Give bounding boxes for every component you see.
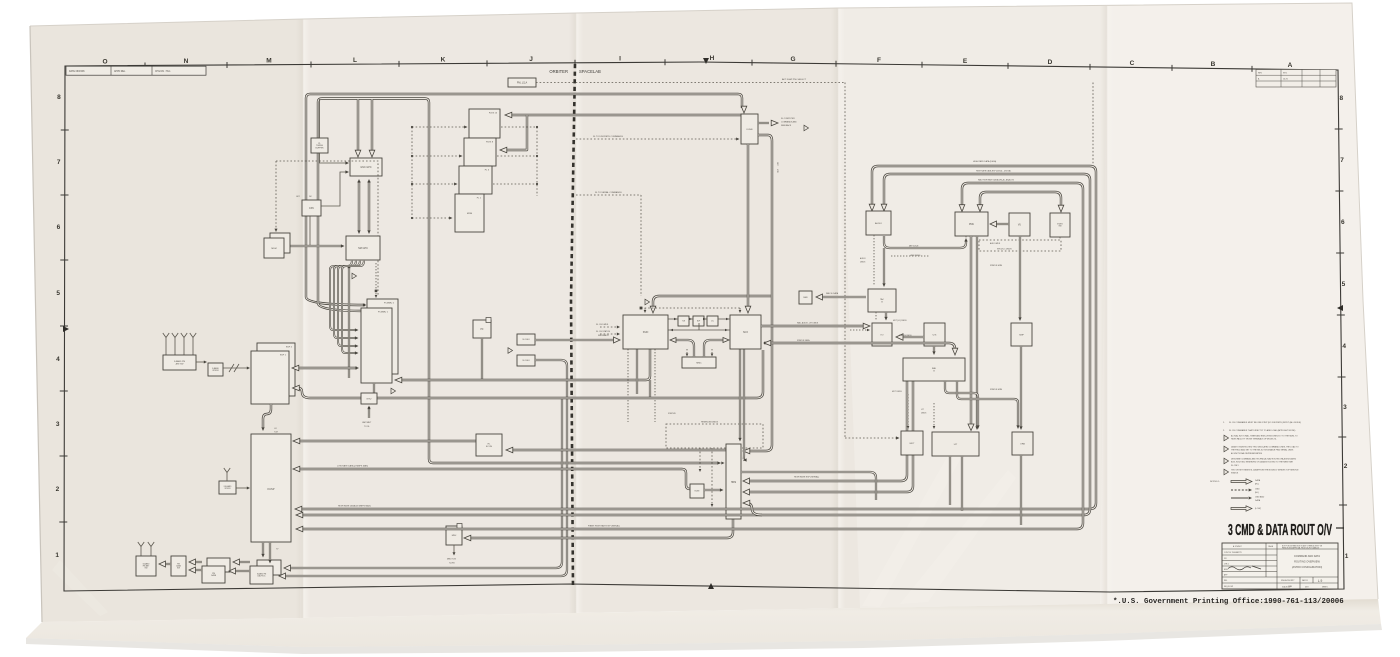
box MDM OF rear <box>270 233 290 253</box>
svg-text:HIGH RATE EXP (SERIAL): HIGH RATE EXP (SERIAL) <box>794 476 820 479</box>
svg-text:HRM/KUSB DMDS: HRM/KUSB DMDS <box>701 422 719 424</box>
svg-text:8: 8 <box>1340 95 1344 102</box>
svg-text:(HL): (HL) <box>1255 492 1259 494</box>
svg-text:AUD DMDS: AUD DMDS <box>990 242 1001 245</box>
box I O <box>872 323 892 346</box>
svg-text:3 CMD & DATA ROUT O/V: 3 CMD & DATA ROUT O/V <box>1228 522 1332 539</box>
svg-text:*.U.S. Government Printing Off: *.U.S. Government Printing Office:1990-7… <box>1113 598 1344 606</box>
wire AUDIO-TAC dotted <box>873 235 875 286</box>
svg-text:FEEDBACK: FEEDBACK <box>781 124 792 127</box>
svg-text:STATUS: STATUS <box>1231 472 1239 475</box>
wire dotted cmd vert <box>411 127 413 218</box>
svg-text:CONT SL TELEMETRY: CONT SL TELEMETRY <box>1224 552 1243 554</box>
wire SCO-IO <box>761 325 868 327</box>
wire branch to SCO top <box>747 144 749 309</box>
wire SL serial dotted <box>576 195 740 311</box>
wire SSIO vert b <box>649 380 651 398</box>
wire MMC c <box>711 349 713 355</box>
wire left bus B <box>318 99 718 464</box>
svg-text:G: G <box>790 56 795 63</box>
wire bus-GNC a <box>357 99 359 153</box>
svg-text:FLEX 8: FLEX 8 <box>486 142 494 144</box>
ORBITER-SPACELAB divider line <box>571 64 575 588</box>
frame left tick marks <box>59 130 68 522</box>
svg-text:B: B <box>1211 61 1216 68</box>
wire TAC-IO dotted <box>875 312 877 321</box>
svg-text:DATE 06/03/96: DATE 06/03/96 <box>69 70 85 73</box>
box PMU <box>955 212 988 236</box>
svg-text:CHK 1: CHK 1 <box>1224 564 1229 566</box>
svg-text:KUSP: KUSP <box>267 487 274 491</box>
svg-text:XPNDR: XPNDR <box>212 370 219 372</box>
svg-text:A 1234567: A 1234567 <box>1233 545 1242 548</box>
box KUSB <box>741 114 758 144</box>
wire SMP-ORB <box>1020 346 1022 427</box>
svg-text:SL OS COMMANDS THAT DIRECTLY T: SL OS COMMANDS THAT DIRECTLY TO AND LOAD… <box>1229 429 1296 432</box>
flag near MTU bus <box>391 388 396 394</box>
wire KUSP down a <box>262 542 264 555</box>
box PL MDM 3 <box>459 166 492 194</box>
svg-text:VU: VU <box>1018 224 1022 226</box>
flag note 4 near PCMMU <box>352 273 357 279</box>
svg-text:STATUS HRM: STATUS HRM <box>990 388 1002 391</box>
wire MTU stub <box>368 407 370 418</box>
svg-text:ROUTING OVERVIEW: ROUTING OVERVIEW <box>1294 561 1320 564</box>
svg-text:DMDS: DMDS <box>860 262 866 264</box>
svg-text:2: 2 <box>1344 463 1348 470</box>
svg-text:UNIT: UNIT <box>1305 587 1309 589</box>
box MDM PF <box>473 320 491 338</box>
box RAU B <box>903 358 965 381</box>
svg-text:MMC: MMC <box>696 362 702 364</box>
svg-text:DATA: DATA <box>1255 479 1261 482</box>
wire PMU-UT b <box>976 236 978 427</box>
box SSIO <box>623 315 668 349</box>
wire SCO-HRM a <box>739 349 741 439</box>
svg-text:CPU: CPU <box>309 207 314 210</box>
svg-text:ORBITER: ORBITER <box>549 69 568 74</box>
wire US-IO <box>900 336 924 338</box>
box KUSE <box>690 484 704 498</box>
wire SSIO vert a <box>636 349 638 394</box>
svg-text:(LOW): (LOW) <box>1255 508 1261 510</box>
box MTU <box>361 393 377 404</box>
svg-text:KSP 2: KSP 2 <box>286 347 293 349</box>
frame right tick marks <box>1335 129 1347 505</box>
wire KUSB-SSIO <box>653 296 773 309</box>
svg-text:1: 1 <box>1345 553 1349 560</box>
frame top tick marks <box>145 59 1252 72</box>
box ORB <box>1012 432 1033 455</box>
svg-text:CMD: CMD <box>1255 488 1260 490</box>
svg-text:NOTES 1:: NOTES 1: <box>1210 481 1220 483</box>
svg-text:PCMMU 1: PCMMU 1 <box>378 312 389 314</box>
wire KUSB-HRM <box>745 135 772 451</box>
svg-text:LOW RATE DATA (2 MBPS MAX): LOW RATE DATA (2 MBPS MAX) <box>337 465 368 468</box>
shadow under paper <box>26 624 1382 654</box>
wire KUSB-FLEX bus <box>510 114 741 116</box>
svg-text:7: 7 <box>57 159 61 166</box>
svg-text:CAGE: CAGE <box>1268 545 1274 548</box>
svg-text:SW: SW <box>1058 226 1061 228</box>
svg-text:SSIO: SSIO <box>643 332 649 334</box>
frame row numbers left <box>55 94 61 559</box>
wire voice dotted <box>891 255 930 257</box>
svg-text:MOT(1-2) DMDS: MOT(1-2) DMDS <box>893 320 907 322</box>
box SMP <box>1011 323 1032 346</box>
frame centering marks <box>63 58 1343 589</box>
svg-text:BUFFER: BUFFER <box>316 147 325 149</box>
box VIDEO SW <box>1050 213 1070 237</box>
wire dotted stub 2 <box>497 155 537 157</box>
wire SCO-KSP <box>298 350 763 398</box>
paper bottom flap <box>26 599 1381 647</box>
svg-text:SL ONLY: SL ONLY <box>1231 465 1240 467</box>
box U T <box>932 432 979 456</box>
wire slos a <box>600 326 617 328</box>
svg-text:4: 4 <box>56 356 60 363</box>
box HL ECON <box>476 434 502 456</box>
frame border <box>64 62 1344 592</box>
wire PCMMU down <box>373 383 375 395</box>
wire loop L2 <box>300 174 1090 515</box>
wire RAU-S a <box>945 381 978 426</box>
revision table top left <box>66 66 206 75</box>
box FLEX 8 <box>464 138 496 166</box>
revision table top right <box>1256 70 1336 88</box>
svg-text:SL OS STATUS: SL OS STATUS <box>596 330 611 333</box>
svg-text:PMU: PMU <box>969 224 974 226</box>
svg-text:CMD AND: CMD AND <box>1255 495 1265 498</box>
svg-text:M: M <box>266 58 271 65</box>
box SM GPC <box>346 236 380 260</box>
svg-text:7: 7 <box>1340 157 1344 164</box>
svg-text:D: D <box>1048 59 1053 66</box>
svg-text:FLEX 13: FLEX 13 <box>489 113 498 115</box>
box PNL L11A <box>508 78 536 87</box>
wire KSP-PCMMU <box>296 367 357 369</box>
svg-text:SMP: SMP <box>1019 334 1024 336</box>
box AUDIO <box>866 211 891 235</box>
box KSP 2 <box>257 343 295 396</box>
wire SCO-RAU <box>764 343 955 352</box>
svg-text:COMMANDS AND: COMMANDS AND <box>781 120 797 123</box>
wire HLECON-KUSP <box>297 440 476 442</box>
wire DEU-SSIO <box>535 339 615 341</box>
wire mid line <box>668 323 730 330</box>
svg-text:SL DEU: SL DEU <box>522 339 530 341</box>
wire MMC-SSIO <box>673 340 694 357</box>
svg-text:GMT/MET: GMT/MET <box>362 422 372 424</box>
box PM DATA front <box>202 566 225 583</box>
svg-text:5: 5 <box>56 290 60 297</box>
bottom right wrinkles <box>862 452 962 607</box>
box S-BAND FM rear <box>257 560 281 575</box>
svg-text:STATUS: STATUS <box>668 412 676 415</box>
svg-text:N: N <box>184 58 189 65</box>
flag above SSIO <box>645 299 650 305</box>
title block <box>1222 543 1338 589</box>
svg-text:DESCRIBE COMMAND AND TECHNICAL: DESCRIBE COMMAND AND TECHNICAL RAU ROUTE… <box>1231 458 1297 461</box>
svg-text:L.9: L.9 <box>1318 579 1323 583</box>
wire fm-pm b <box>234 570 250 572</box>
box PM DATA rear <box>207 558 230 572</box>
flag left of SL DEU <box>508 348 513 354</box>
wire MSU stub <box>453 545 455 553</box>
antennas S-band FM <box>138 542 154 552</box>
wire fm-pm a <box>238 561 250 563</box>
wire bus-GNC b <box>371 99 373 153</box>
wire pmu dotted <box>966 236 1060 240</box>
svg-text:SL COMPUTER: SL COMPUTER <box>781 118 795 120</box>
box FLEX 13 <box>469 109 500 138</box>
svg-text:SW: SW <box>145 568 148 570</box>
wire UT down a <box>949 456 951 505</box>
svg-text:MMU TLM: MMU TLM <box>447 559 456 561</box>
svg-text:KSP 1: KSP 1 <box>280 355 287 357</box>
wire io dotted <box>850 329 868 331</box>
svg-text:TO SL: TO SL <box>364 426 371 428</box>
svg-text:TLM: TLM <box>274 432 278 434</box>
svg-text:RAU, AUDIO, U/T DMDS: RAU, AUDIO, U/T DMDS <box>797 322 819 325</box>
wire lowrate <box>297 469 690 489</box>
svg-text:C: C <box>1130 60 1135 67</box>
wire antsw-xpndr <box>196 361 205 363</box>
wire VU-SMP <box>1019 236 1021 318</box>
wire loop L4 <box>980 192 1061 210</box>
wire up-SMGPC <box>348 267 350 378</box>
svg-text:10-91: 10-91 <box>1283 78 1288 80</box>
box HRM <box>726 444 741 519</box>
svg-text:AFT FLAP PNL SELECT: AFT FLAP PNL SELECT <box>782 78 807 81</box>
wire VU-PMU <box>994 223 1009 225</box>
svg-text:MSU: MSU <box>452 535 457 537</box>
svg-text:MMU: MMU <box>803 297 808 299</box>
wire TAC-MMU <box>820 296 866 298</box>
svg-text:RAU SL DATA: RAU SL DATA <box>826 292 839 295</box>
svg-text:F: F <box>877 57 881 64</box>
svg-text:SM GPC: SM GPC <box>358 247 368 250</box>
svg-text:SPDU/CC DMDS: SPDU/CC DMDS <box>997 249 1012 251</box>
wire fan 1 <box>334 260 356 338</box>
box MMU spacelab <box>799 291 812 304</box>
wire fan 3 <box>342 260 364 353</box>
wire UT down b <box>961 456 963 511</box>
wire loop L3 <box>300 183 1083 529</box>
svg-text:MTU: MTU <box>367 398 372 400</box>
svg-text:6: 6 <box>1341 219 1345 226</box>
box TCE <box>678 316 689 326</box>
svg-text:2: 2 <box>56 486 60 493</box>
wire fan 0 <box>330 260 356 330</box>
svg-text:3: 3 <box>56 421 60 428</box>
wire small row <box>668 318 730 320</box>
title underline dash <box>1336 527 1344 529</box>
wire xpndr-KSP <box>223 367 248 369</box>
svg-text:ACTUAL W/O S RAU, TIMER AND EX: ACTUAL W/O S RAU, TIMER AND EXECUTING DI… <box>1231 435 1298 438</box>
svg-text:SL OS DMDS: SL OS DMDS <box>596 324 609 326</box>
svg-text:RAU HIGH RATE DATA (DM-A) - AN: RAU HIGH RATE DATA (DM-A) - ANALOG <box>978 179 1014 182</box>
wire dotted cmd 4 <box>412 217 450 219</box>
wire loop L1 <box>299 166 1096 509</box>
wire hrm dotted a <box>699 448 701 470</box>
svg-text:MOT: MOT <box>910 443 916 445</box>
wire MMC b <box>686 349 688 355</box>
svg-text:SL TO SERIAL COMMANDS: SL TO SERIAL COMMANDS <box>595 191 622 194</box>
wire TAC-IO <box>885 312 887 318</box>
box VU <box>1009 213 1030 236</box>
wire PLTB up <box>319 99 321 138</box>
wire dotted cmd 3 <box>412 183 455 185</box>
svg-text:A FUNCTIONAL REPRESENTATIVE: A FUNCTIONAL REPRESENTATIVE <box>1231 452 1263 455</box>
box PCMMU 2 <box>367 299 398 374</box>
svg-text:HIGH RATE DATA (48 MBPS MAX): HIGH RATE DATA (48 MBPS MAX) <box>338 505 371 508</box>
wire GPC dotted rect <box>276 161 378 296</box>
box U S <box>924 323 945 346</box>
svg-text:H: H <box>710 55 715 62</box>
wire dotted stub 1 <box>501 126 537 128</box>
wire RAU-HRM b <box>745 381 913 492</box>
wire US-RAU <box>933 346 935 352</box>
wire AUDIO-PMU <box>884 236 966 248</box>
wire branch FLEX8 <box>505 115 527 150</box>
svg-text:BUF: BUF <box>697 321 700 323</box>
wire dotted cmd 1 <box>412 126 465 128</box>
svg-text:PCMMU 2: PCMMU 2 <box>384 303 395 305</box>
box KSP 1 <box>251 351 289 404</box>
wire pm-fmsw a <box>193 561 202 563</box>
wire slos b <box>600 333 617 335</box>
svg-text:(HL): (HL) <box>1255 483 1259 485</box>
box FM DATA SW <box>171 556 186 576</box>
svg-text:MDM: MDM <box>271 248 276 250</box>
wire fm sticks <box>141 552 151 556</box>
svg-text:ECON: ECON <box>486 446 493 448</box>
svg-text:SCO: SCO <box>743 332 748 334</box>
legend <box>1210 479 1265 511</box>
svg-text:MDM: MDM <box>467 213 472 215</box>
svg-text:STATUS HRM: STATUS HRM <box>990 264 1002 267</box>
wire PCMMU-SSIO <box>398 349 650 380</box>
svg-text:STATUS DMDS: STATUS DMDS <box>899 334 912 337</box>
wire RAU-HRM a <box>745 381 907 481</box>
box MDM OF front <box>264 238 284 258</box>
svg-text:APPD REL: APPD REL <box>114 70 126 73</box>
box S-BAND FM front <box>250 566 273 584</box>
svg-text:SL OS COMMANDS MUST BE ONE STE: SL OS COMMANDS MUST BE ONE STEP (I/O DIS… <box>1229 421 1301 424</box>
wire SL discrete dotted <box>576 138 737 140</box>
svg-text:DATA TO MDM ROUTED TWO DEDICAT: DATA TO MDM ROUTED TWO DEDICATED COMMAND… <box>1231 446 1299 449</box>
box GNC GPC <box>350 158 382 176</box>
wire HRM-MSU <box>466 519 733 538</box>
wire MMC-SCO <box>704 340 726 357</box>
box S-BAND FM ANT SW <box>136 556 156 576</box>
svg-text:XPNDR: XPNDR <box>225 488 232 490</box>
box PL TIMING BUFFER <box>311 138 328 153</box>
wire PMU-UT a <box>970 236 972 427</box>
svg-text:SPACELAB: SPACELAB <box>579 69 601 74</box>
box PCMMU 1 <box>361 308 392 383</box>
wire ant sticks <box>166 343 193 355</box>
svg-text:SEQ-FLOW: SEQ-FLOW <box>1224 586 1233 588</box>
svg-text:PNL L11A: PNL L11A <box>517 81 528 84</box>
box SL DEU lower <box>517 355 535 366</box>
svg-text:HRM: HRM <box>731 482 736 484</box>
wire HRM serial <box>741 472 876 500</box>
box PL MDM 1 <box>455 194 484 232</box>
wire dotted stub v <box>536 127 538 196</box>
svg-text:K: K <box>441 56 446 63</box>
svg-text:AUDIO: AUDIO <box>875 222 882 225</box>
wire SCO-HRM b <box>742 349 745 460</box>
svg-text:GNC GPC: GNC GPC <box>360 166 371 169</box>
box BUF <box>693 316 704 326</box>
svg-text:HIGH RATE DATA EXP (DM-B) - DI: HIGH RATE DATA EXP (DM-B) - DIGITAL <box>976 170 1011 173</box>
svg-text:SL TO DISCRETE COMMANDS: SL TO DISCRETE COMMANDS <box>593 135 623 138</box>
wire CPU-GNC <box>321 172 347 206</box>
box CPU <box>302 200 321 216</box>
svg-text:FEEDBACK: FEEDBACK <box>598 334 609 337</box>
svg-text:SH 1: SH 1 <box>1283 73 1287 75</box>
box SCO <box>730 315 761 349</box>
svg-text:KUSB: KUSB <box>747 129 753 131</box>
svg-text:FIBER HIGH RATE EXP (SERIAL): FIBER HIGH RATE EXP (SERIAL) <box>588 525 620 528</box>
svg-text:CHG/CN -TN-1: CHG/CN -TN-1 <box>155 71 171 73</box>
svg-text:6: 6 <box>57 224 61 231</box>
wire KUSE-HRM <box>704 489 721 491</box>
svg-text:ORB: ORB <box>1020 443 1025 445</box>
svg-text:4: 4 <box>1342 343 1346 350</box>
wire hrmdmds rect <box>666 424 763 448</box>
wire KUSB right stub <box>758 122 769 124</box>
box KUSP <box>251 434 291 542</box>
svg-text:REL: REL <box>1224 580 1227 582</box>
svg-text:DATA: DATA <box>211 574 216 577</box>
antenna Ku-band <box>224 468 230 478</box>
box KU-BAND XPNDR <box>219 481 236 494</box>
box MOT <box>901 431 923 455</box>
svg-text:GPC: GPC <box>296 196 301 198</box>
frame column letters <box>102 55 1292 69</box>
antenna array S-band PM <box>163 333 196 343</box>
svg-text:SL DEU: SL DEU <box>522 360 530 362</box>
wire fmsw-ant <box>163 563 171 565</box>
svg-text:1: 1 <box>55 552 59 559</box>
box S-BAND XPNDR <box>208 363 223 376</box>
wire KUSP down b <box>269 542 271 561</box>
wire CPU down <box>309 216 311 246</box>
notes list <box>1223 421 1301 475</box>
svg-text:O: O <box>102 59 107 66</box>
svg-text:(ASTRO CONFIGURATION): (ASTRO CONFIGURATION) <box>1292 566 1323 569</box>
wire fan 2 <box>338 260 360 346</box>
wire aud dmds rect <box>979 240 1061 251</box>
wire GNC-SM a <box>358 181 360 231</box>
box SL DEU upper <box>517 334 535 345</box>
svg-text:STATUS DATA: STATUS DATA <box>797 339 810 342</box>
svg-text:I/O: I/O <box>881 334 884 336</box>
wire pm-fmsw b <box>193 569 202 571</box>
svg-text:DATA: DATA <box>1255 499 1261 502</box>
wire feeder a <box>287 398 562 568</box>
svg-text:8: 8 <box>57 94 61 101</box>
svg-text:U/S: U/S <box>933 334 937 336</box>
wire mot dotted <box>907 394 909 427</box>
svg-text:ANT SW: ANT SW <box>176 362 184 365</box>
svg-text:MOT DMDS: MOT DMDS <box>892 391 903 393</box>
wire PF-PCMMU <box>481 338 483 380</box>
box CIC <box>707 316 718 326</box>
